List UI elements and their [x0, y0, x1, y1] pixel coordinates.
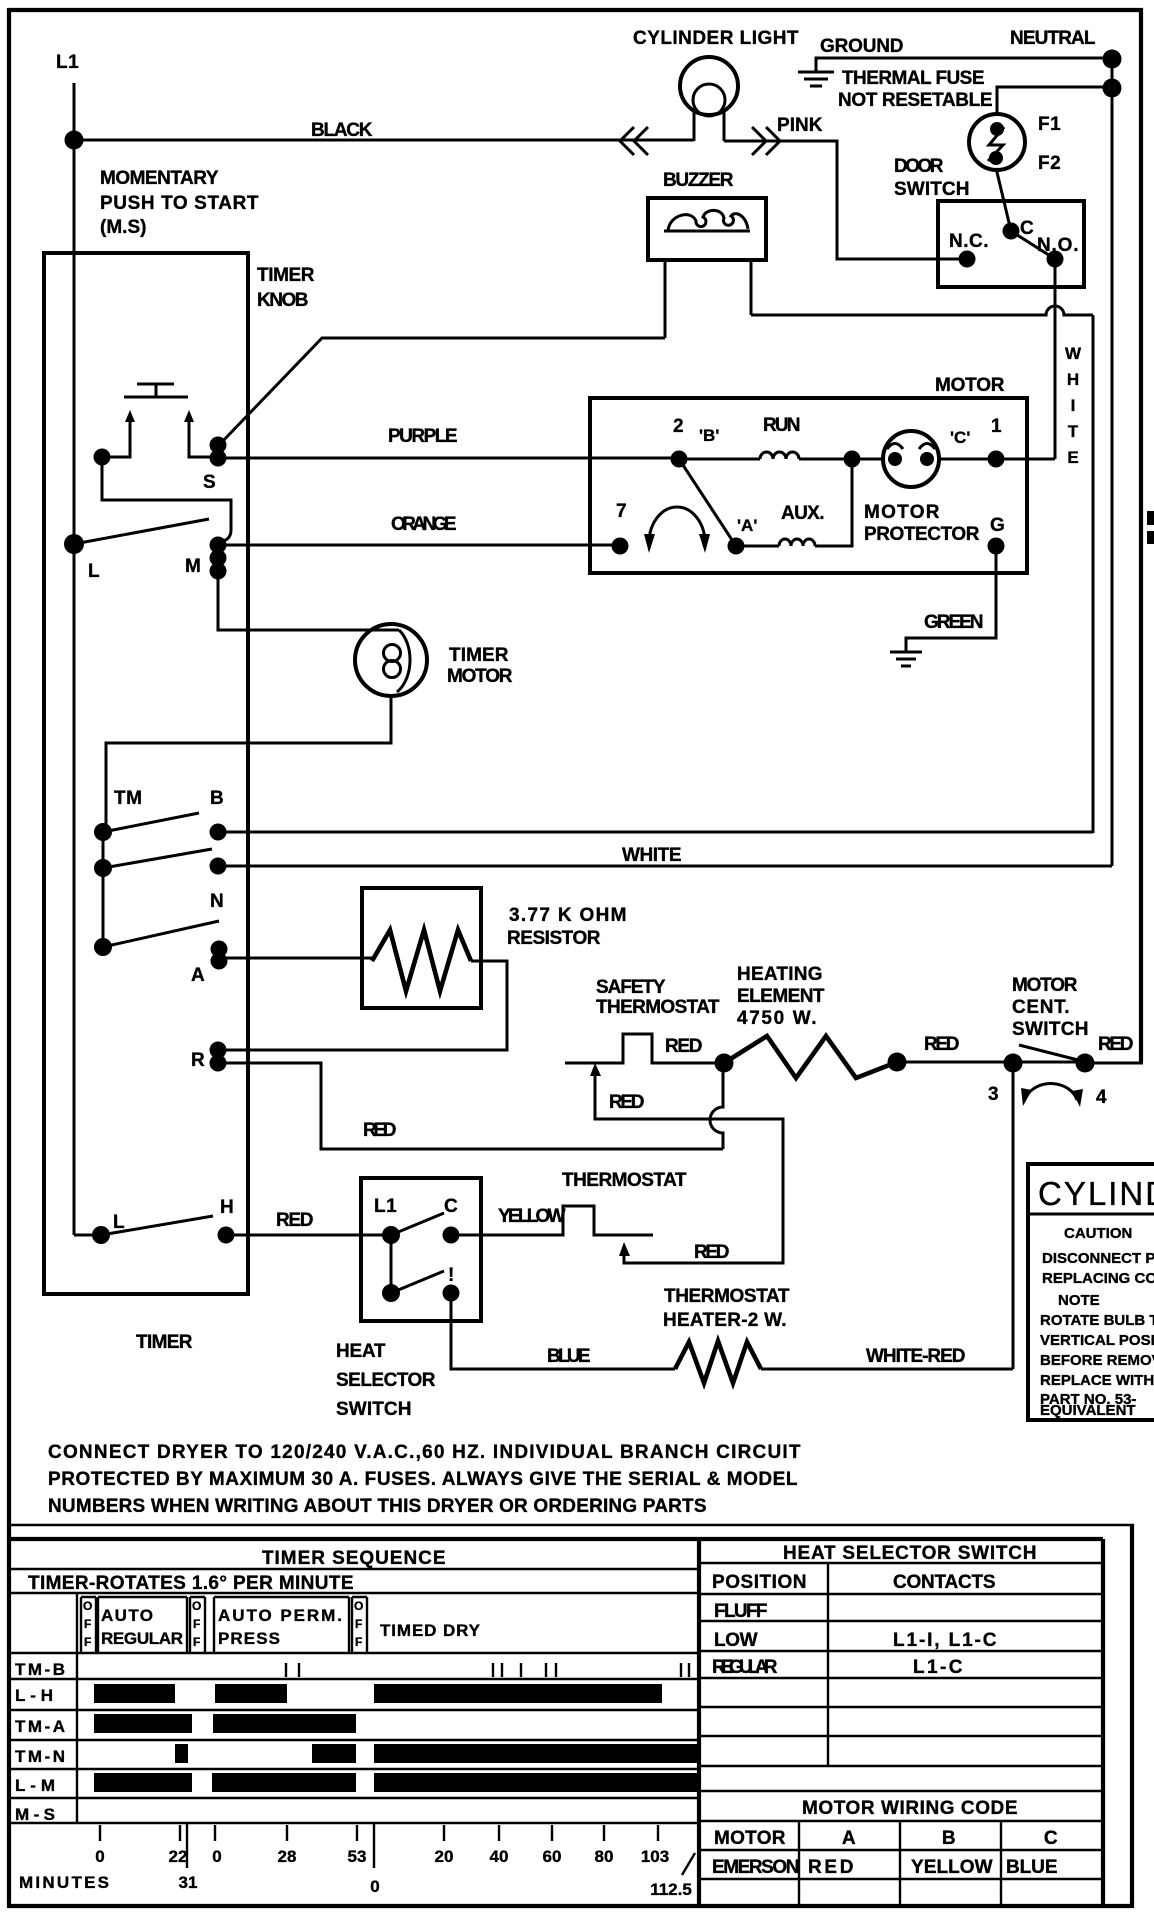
timer blade TM-B	[103, 813, 199, 832]
timer contact R dots	[210, 1042, 227, 1059]
timer blade L-H	[101, 1216, 213, 1235]
timer contact B	[210, 824, 227, 841]
svg-text:R: R	[191, 1050, 205, 1071]
svg-text:TIMER: TIMER	[136, 1332, 193, 1353]
motor terminal G	[988, 538, 1005, 555]
svg-text:TIMED DRY: TIMED DRY	[380, 1621, 481, 1640]
timer sequence table right edge	[697, 1539, 701, 1906]
heat selector switch box	[361, 1178, 481, 1321]
svg-text:F: F	[84, 1617, 91, 1631]
svg-text:BLACK: BLACK	[311, 120, 373, 141]
svg-text:'C': 'C'	[950, 428, 970, 447]
motor protector contact left	[888, 452, 902, 466]
motor protector contact arcs	[887, 444, 935, 450]
svg-text:L: L	[88, 561, 100, 582]
svg-text:RED: RED	[276, 1210, 314, 1231]
momentary left contact	[94, 449, 111, 466]
wire B to white rail	[218, 831, 1093, 834]
header AUTO REGULAR box	[98, 1597, 187, 1653]
TM-A bars	[94, 1714, 192, 1733]
svg-text:PRESS: PRESS	[218, 1629, 280, 1648]
svg-text:THERMOSTAT: THERMOSTAT	[562, 1170, 687, 1191]
motor box	[590, 398, 1027, 573]
label column divider	[76, 1593, 78, 1823]
motor terminal 7	[612, 538, 629, 555]
wire resistor to R	[218, 961, 507, 1050]
motor protector body	[883, 431, 939, 487]
node motor cent switch 4	[1076, 1054, 1095, 1073]
wire C to thermostat YELLOW	[451, 1234, 481, 1237]
svg-text:MOTOR: MOTOR	[447, 666, 513, 687]
wire ORANGE from M to motor 7	[218, 544, 620, 547]
svg-text:CYLINDE: CYLINDE	[1038, 1175, 1154, 1212]
svg-text:TM-N: TM-N	[15, 1747, 65, 1766]
motor AUX winding wire	[736, 545, 779, 548]
svg-text:F: F	[84, 1635, 91, 1649]
svg-text:BLUE: BLUE	[547, 1346, 591, 1367]
svg-text:FLUFF: FLUFF	[714, 1601, 768, 1622]
svg-text:MOTOR WIRING CODE: MOTOR WIRING CODE	[802, 1798, 1018, 1819]
wire AUX to junction	[815, 459, 852, 546]
wire heating element to cent switch RED	[897, 1061, 1084, 1064]
wire WHITE vertical rail	[1092, 315, 1095, 833]
motor AUX winding	[779, 539, 815, 546]
node motor junction	[844, 451, 861, 468]
svg-text:22: 22	[169, 1847, 188, 1866]
wire BLACK	[74, 139, 694, 142]
svg-text:DISCONNECT P: DISCONNECT P	[1042, 1250, 1154, 1267]
svg-text:THERMOSTAT: THERMOSTAT	[664, 1286, 790, 1307]
svg-text:O: O	[83, 1599, 92, 1613]
svg-text:AUTO PERM.: AUTO PERM.	[218, 1606, 342, 1625]
door switch blade	[1011, 231, 1055, 259]
wire TM chain	[102, 832, 105, 947]
svg-text:GREEN: GREEN	[924, 612, 984, 633]
svg-text:TIMER: TIMER	[257, 265, 315, 286]
border frame left	[7, 8, 11, 1908]
wire GREEN to ground	[906, 546, 996, 652]
motor start switch arc with arrows	[649, 507, 705, 543]
cylinder light caution box	[1028, 1164, 1154, 1420]
door switch terminal N.C.	[959, 251, 976, 268]
svg-text:LOW: LOW	[714, 1630, 758, 1651]
header OFF box 1	[81, 1597, 96, 1653]
wire ground to neutral	[816, 58, 1112, 71]
timer blade L to M	[74, 519, 209, 544]
svg-text:MOTOR: MOTOR	[864, 502, 940, 523]
svg-text:C: C	[1020, 218, 1034, 239]
wire H to heat selector L1 RED	[226, 1234, 391, 1237]
node neutral lower	[1103, 79, 1122, 98]
border frame right lower segment	[1130, 1524, 1134, 1908]
door switch terminal C	[1003, 223, 1020, 240]
svg-text:REGULAR: REGULAR	[712, 1657, 778, 1678]
svg-text:SWITCH: SWITCH	[336, 1399, 412, 1420]
wire N.O. to motor terminal 1	[1054, 259, 1057, 459]
svg-text:THERMOSTAT: THERMOSTAT	[596, 997, 720, 1018]
svg-text:0: 0	[212, 1847, 221, 1866]
door switch terminal N.O.	[1047, 251, 1064, 268]
motor cent switch blade	[1019, 1045, 1078, 1060]
row line L-H top	[8, 1678, 699, 1680]
wire NEUTRAL rail	[1111, 59, 1114, 866]
wire blue from HSS 1 to heater	[451, 1293, 675, 1369]
thermostat arrow	[619, 1242, 630, 1256]
svg-text:L1: L1	[374, 1196, 397, 1217]
HSS table title underline	[699, 1562, 1103, 1564]
header AUTO PERM PRESS box	[214, 1597, 349, 1653]
svg-text:(M.S): (M.S)	[100, 217, 147, 238]
resistor box	[362, 888, 481, 1008]
svg-text:O: O	[192, 1599, 201, 1613]
svg-text:ORANGE: ORANGE	[391, 514, 457, 535]
svg-text:PROTECTED BY MAXIMUM 30 A. FUS: PROTECTED BY MAXIMUM 30 A. FUSES. ALWAYS…	[48, 1469, 798, 1490]
svg-text:SWITCH: SWITCH	[1012, 1019, 1089, 1040]
svg-text:F: F	[193, 1635, 200, 1649]
svg-text:VERTICAL POSI: VERTICAL POSI	[1040, 1332, 1154, 1349]
svg-text:TM-A: TM-A	[15, 1717, 65, 1736]
svg-text:C: C	[1044, 1828, 1058, 1849]
svg-text:20: 20	[435, 1847, 454, 1866]
HSS table right edge	[1101, 1539, 1105, 1906]
svg-text:SELECTOR: SELECTOR	[336, 1370, 436, 1391]
svg-text:TIMER: TIMER	[449, 645, 509, 666]
row line	[699, 1620, 1103, 1622]
svg-text:EQUIVALENT: EQUIVALENT	[1040, 1402, 1136, 1419]
svg-text:103: 103	[641, 1847, 669, 1866]
svg-text:112.5: 112.5	[650, 1880, 692, 1899]
node neutral upper	[1103, 50, 1122, 69]
border frame top	[8, 8, 1143, 12]
timer blade TM-N	[103, 849, 212, 868]
HSS common link	[390, 1235, 393, 1293]
timer contact S	[210, 437, 227, 454]
wire cent switch 3 down to white-red	[1012, 1063, 1015, 1369]
svg-text:SWITCH: SWITCH	[894, 179, 970, 200]
TM-N bars	[175, 1744, 188, 1763]
svg-text:O: O	[354, 1599, 363, 1613]
node motor cent switch 3	[1004, 1054, 1023, 1073]
wire rail to L	[74, 1234, 101, 1237]
svg-text:'B': 'B'	[699, 426, 719, 445]
thermal fuse F1/F2 body	[969, 114, 1025, 170]
svg-text:L-H: L-H	[15, 1686, 53, 1705]
svg-text:F: F	[193, 1617, 200, 1631]
svg-text:RESISTOR: RESISTOR	[507, 928, 601, 949]
border frame right upper segment	[1139, 8, 1143, 1063]
header OFF box 3	[352, 1597, 367, 1653]
row line TM-B top	[8, 1652, 699, 1654]
svg-text:G: G	[990, 515, 1005, 536]
svg-text:CENT.: CENT.	[1012, 997, 1070, 1018]
svg-text:A: A	[191, 965, 205, 986]
svg-text:N: N	[210, 891, 224, 912]
svg-text:HEAT SELECTOR SWITCH: HEAT SELECTOR SWITCH	[783, 1543, 1037, 1564]
row line TM-N top	[8, 1739, 699, 1741]
svg-text:H: H	[1067, 370, 1079, 389]
wire white-red heater to cent switch 3	[761, 1368, 1013, 1371]
row line below rotates	[8, 1592, 699, 1594]
stray ink marks at right edge	[1147, 511, 1154, 525]
svg-text:TM-B: TM-B	[15, 1660, 65, 1679]
axis ticks	[100, 1825, 658, 1841]
row line L-M top	[8, 1768, 699, 1770]
wire L1 rail	[73, 83, 76, 1235]
buzzer leg left	[664, 260, 667, 338]
svg-text:REPLACE WITH: REPLACE WITH	[1040, 1372, 1154, 1389]
HSS column divider	[827, 1563, 829, 1765]
ground symbol top	[798, 72, 834, 86]
safety thermostat contact	[565, 1034, 723, 1063]
row line TM-A top	[8, 1709, 699, 1711]
timer box	[44, 253, 248, 1294]
wire PURPLE from S to motor 2	[218, 457, 679, 460]
cylinder light lamp inner	[693, 84, 725, 116]
svg-text:RED: RED	[694, 1242, 730, 1263]
caution box title divider	[1028, 1213, 1154, 1216]
svg-text:EMERSON: EMERSON	[712, 1857, 800, 1878]
door switch box	[938, 201, 1084, 287]
svg-text:4: 4	[1096, 1087, 1107, 1108]
motor terminal A	[728, 538, 745, 555]
thermal fuse terminal F1	[990, 122, 1004, 136]
chevron marks on PINK wire	[752, 127, 780, 155]
chevron marks on BLACK wire	[620, 127, 648, 155]
svg-text:REPLACING CO: REPLACING CO	[1042, 1270, 1154, 1287]
svg-text:53: 53	[348, 1847, 367, 1866]
L-M bars	[94, 1773, 192, 1792]
svg-text:31: 31	[179, 1873, 198, 1892]
timer motor body	[355, 624, 427, 696]
svg-text:ROTATE BULB T: ROTATE BULB T	[1040, 1312, 1154, 1329]
svg-text:RED: RED	[665, 1036, 703, 1057]
svg-text:DOOR: DOOR	[894, 156, 944, 177]
svg-text:YELLOW: YELLOW	[911, 1857, 993, 1878]
wire N to neutral rail	[218, 865, 1112, 868]
svg-text:PUSH TO START: PUSH TO START	[100, 193, 259, 214]
wire momentary right lead	[189, 432, 218, 457]
timer contact A dots	[211, 941, 228, 958]
motor RUN winding	[760, 452, 799, 459]
buzzer coil	[664, 210, 750, 231]
divider line above tables	[8, 1524, 1134, 1526]
motor protector contact right	[920, 452, 934, 466]
svg-text:PURPLE: PURPLE	[388, 426, 458, 447]
svg-text:F2: F2	[1038, 153, 1061, 174]
svg-text:0: 0	[95, 1847, 104, 1866]
svg-text:THERMAL FUSE: THERMAL FUSE	[842, 68, 985, 89]
timer motor coil loops	[384, 645, 401, 662]
svg-text:N.C.: N.C.	[949, 231, 989, 252]
thermal fuse terminal F2	[989, 151, 1003, 165]
timer blade TM-A	[103, 921, 219, 947]
timer contact H	[218, 1227, 235, 1244]
svg-text:28: 28	[278, 1847, 297, 1866]
timer contact M dots	[210, 537, 227, 554]
svg-text:POSITION: POSITION	[712, 1572, 807, 1593]
svg-text:L1-C: L1-C	[913, 1657, 963, 1678]
timer sequence table top	[8, 1537, 1103, 1541]
svg-text:40: 40	[490, 1847, 509, 1866]
svg-text:CONTACTS: CONTACTS	[893, 1572, 996, 1593]
svg-text:H: H	[220, 1197, 234, 1218]
motor switch blade 2 to A	[679, 459, 736, 546]
row lines empty	[699, 1678, 1103, 1736]
svg-text:TM: TM	[114, 788, 142, 809]
svg-text:PINK: PINK	[777, 115, 823, 136]
thermostat contact	[481, 1206, 653, 1235]
svg-text:3.77 K OHM: 3.77 K OHM	[509, 905, 627, 926]
safety thermostat arrow	[594, 1072, 597, 1080]
svg-text:B: B	[210, 788, 224, 809]
svg-text:YELLOW: YELLOW	[498, 1206, 566, 1227]
lamp leg right	[723, 110, 726, 141]
svg-text:E: E	[1067, 448, 1078, 467]
wire M to timer motor	[218, 571, 399, 630]
motor RUN winding wire	[679, 458, 760, 461]
buzzer box	[648, 198, 766, 260]
resistor 3.77k zigzag	[372, 930, 471, 991]
svg-text:NOT RESETABLE: NOT RESETABLE	[838, 90, 993, 111]
svg-text:CYLINDER LIGHT: CYLINDER LIGHT	[633, 28, 799, 49]
svg-text:80: 80	[595, 1847, 614, 1866]
momentary arrow left	[129, 419, 132, 432]
svg-text:HEATING: HEATING	[737, 964, 823, 985]
svg-text:S: S	[203, 472, 216, 493]
node heating element right	[888, 1053, 907, 1072]
motor terminal 2	[671, 451, 688, 468]
svg-text:GROUND: GROUND	[820, 36, 904, 57]
svg-text:A: A	[842, 1828, 856, 1849]
svg-text:BLUE: BLUE	[1006, 1857, 1058, 1878]
row line below title	[8, 1568, 699, 1570]
svg-text:RED: RED	[609, 1092, 645, 1113]
svg-text:MOMENTARY: MOMENTARY	[100, 168, 219, 189]
svg-text:REGULAR: REGULAR	[101, 1629, 183, 1648]
svg-text:RED: RED	[1098, 1034, 1134, 1055]
row line M-S top	[8, 1797, 699, 1799]
svg-text:PROTECTOR: PROTECTOR	[864, 524, 980, 545]
timer contact L bottom	[92, 1226, 110, 1244]
svg-text:B: B	[942, 1828, 956, 1849]
svg-text:0: 0	[370, 1877, 379, 1896]
row line axis top	[8, 1822, 699, 1824]
svg-text:RED: RED	[363, 1120, 397, 1141]
L-H bars	[94, 1684, 175, 1703]
svg-text:KNOB: KNOB	[257, 290, 309, 311]
svg-text:HEAT: HEAT	[336, 1341, 386, 1362]
timer TM common dots	[94, 823, 112, 841]
HSS blade L1-1	[391, 1271, 444, 1293]
svg-text:M: M	[185, 556, 201, 577]
svg-text:NUMBERS WHEN WRITING ABOUT THI: NUMBERS WHEN WRITING ABOUT THIS DRYER OR…	[48, 1496, 707, 1517]
thick line	[699, 1765, 1103, 1767]
svg-text:TIMER SEQUENCE: TIMER SEQUENCE	[262, 1548, 446, 1569]
svg-text:ELEMENT: ELEMENT	[737, 986, 825, 1007]
row line	[699, 1820, 1103, 1822]
wire heating element junction hop down to R wire	[710, 1063, 723, 1149]
wire timer motor to TM contacts	[106, 695, 391, 832]
thermostat heater zigzag	[675, 1341, 761, 1383]
svg-text:60: 60	[543, 1847, 562, 1866]
svg-text:M-S: M-S	[15, 1805, 55, 1824]
row line above MWC	[699, 1790, 1103, 1792]
row line	[699, 1878, 1103, 1880]
timer contact N	[210, 858, 227, 875]
svg-text:BEFORE REMOV: BEFORE REMOV	[1040, 1352, 1154, 1369]
svg-text:RED: RED	[808, 1857, 854, 1878]
svg-text:WHITE: WHITE	[622, 845, 682, 866]
wire RUN to protector	[799, 458, 883, 461]
motor terminal 1	[988, 451, 1005, 468]
svg-text:RUN: RUN	[763, 415, 801, 436]
svg-text:L1: L1	[56, 52, 79, 73]
wire buzzer to timer S contact	[219, 338, 665, 445]
svg-text:T: T	[1068, 422, 1079, 441]
svg-text:'A': 'A'	[737, 516, 757, 535]
motor cent switch arc with arrows	[1026, 1084, 1077, 1100]
svg-text:C: C	[444, 1196, 458, 1217]
svg-text:3: 3	[988, 1084, 999, 1105]
svg-text:CONNECT DRYER TO 120/240 V.A.C: CONNECT DRYER TO 120/240 V.A.C.,60 HZ. I…	[48, 1442, 801, 1463]
wire cent switch 4 to right border RED	[1085, 1062, 1143, 1065]
svg-text:!: !	[448, 1265, 455, 1286]
node heating element left	[715, 1054, 734, 1073]
row line	[699, 1650, 1103, 1652]
svg-text:BUZZER: BUZZER	[663, 170, 734, 191]
MWC column dividers	[799, 1821, 1001, 1906]
svg-text:F: F	[355, 1617, 362, 1631]
wire PINK to door switch	[724, 141, 967, 259]
svg-text:HEATER-2 W.: HEATER-2 W.	[663, 1310, 787, 1331]
border frame bottom	[8, 1904, 1132, 1908]
buzzer leg right	[750, 260, 753, 315]
momentary push button actuator	[124, 396, 188, 399]
svg-text:NOTE: NOTE	[1058, 1292, 1100, 1309]
wire momentary left lead	[102, 432, 130, 457]
heating element zigzag	[724, 1036, 897, 1078]
wire momentary to M common	[102, 457, 231, 542]
row line	[699, 1593, 1103, 1595]
svg-text:7: 7	[616, 501, 627, 522]
momentary arrow right	[188, 419, 191, 432]
cylinder light lamp outer	[680, 57, 738, 115]
ground symbol motor	[890, 652, 922, 666]
svg-text:WHITE-RED: WHITE-RED	[866, 1346, 966, 1367]
svg-text:CAUTION: CAUTION	[1064, 1225, 1132, 1242]
svg-text:MOTOR: MOTOR	[935, 375, 1005, 396]
svg-text:L-M: L-M	[15, 1776, 55, 1795]
svg-text:4750 W.: 4750 W.	[737, 1008, 817, 1029]
node L on rail	[64, 534, 84, 554]
svg-text:2: 2	[673, 416, 684, 437]
node L1/BLACK junction	[65, 131, 84, 150]
svg-text:MOTOR: MOTOR	[1012, 975, 1078, 996]
svg-text:MOTOR: MOTOR	[714, 1828, 786, 1849]
svg-text:SAFETY: SAFETY	[596, 977, 666, 998]
HSS terminal L1	[382, 1226, 400, 1244]
svg-text:AUX.: AUX.	[781, 503, 825, 524]
svg-text:1: 1	[991, 416, 1002, 437]
HSS blade L1-C	[391, 1213, 444, 1235]
svg-text:F: F	[355, 1635, 362, 1649]
thermal fuse element	[988, 127, 1004, 161]
svg-text:I: I	[1071, 396, 1076, 415]
svg-text:W: W	[1065, 344, 1082, 363]
axis slash mark	[682, 1853, 695, 1875]
HSS terminal C	[443, 1227, 460, 1244]
wire A to resistor	[219, 957, 372, 960]
